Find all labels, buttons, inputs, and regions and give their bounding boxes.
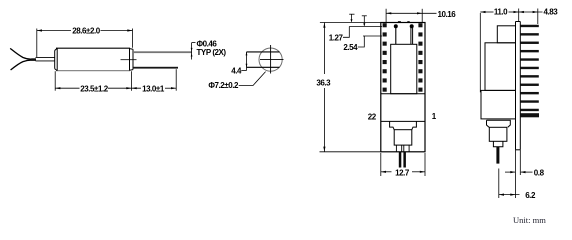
inner lead 2 (double) with top ball [410,27,412,44]
mid block [485,43,516,91]
pins [520,25,539,118]
body top edge [56,47,130,49]
dim 23.5±1.2 and 13.0±1 [55,69,176,91]
arrow stems [351,14,353,21]
wire upper [10,48,31,59]
centerline tick at right cap [121,59,137,61]
divider line (capsule bottom, full width) [381,93,425,95]
svg-text:4.83: 4.83 [544,8,559,17]
connector cap [487,120,511,127]
ext at package top edge level [320,22,382,24]
body left cap [55,48,58,70]
dim 4.4 [246,52,248,71]
circle outline [259,48,282,71]
dim 6.2 [499,194,520,196]
body right cap [130,48,134,70]
svg-text:2.54: 2.54 [343,43,358,52]
leader 2.54 [358,36,365,47]
lead feet [396,145,409,152]
left pad column [383,23,387,92]
slab edge extensions [515,150,517,198]
lead dia callout Φ0.46 TYP (2X) [192,43,196,60]
left extension line [479,13,481,92]
svg-text:10.16: 10.16 [438,10,457,19]
dim 0.8 [505,171,533,173]
lead sleeve pair [36,56,55,58]
connector block 2 [489,127,507,141]
svg-text:36.3: 36.3 [316,78,331,87]
dim 4.83 [519,9,543,25]
dim 10.16 [386,9,436,22]
svg-text:6.2: 6.2 [525,191,536,200]
lead line lower [247,66,280,68]
dim 12.7 [381,153,425,176]
svg-text:22: 22 [368,112,377,121]
dia leader Φ7.2±0.2 [239,72,266,86]
right pad column [418,23,422,92]
svg-text:1.27: 1.27 [329,34,344,43]
inner capsule rect [391,44,417,93]
svg-text:23.5±1.2: 23.5±1.2 [80,84,108,93]
svg-text:Unit: mm: Unit: mm [513,215,546,225]
lead foot [493,141,503,146]
svg-text:Φ7.2±0.2: Φ7.2±0.2 [208,81,239,90]
lead extension line [498,169,500,199]
lead down (thick) [496,147,499,164]
ext row3 [363,35,382,37]
thick bottom pin [520,113,539,117]
package outline [381,23,425,152]
svg-text:4.4: 4.4 [231,66,242,75]
svg-text:0.8: 0.8 [534,169,545,178]
svg-text:12.7: 12.7 [395,168,410,177]
horizontal centerline [260,59,284,61]
lower lead (black) [133,67,178,69]
lead line upper [247,51,280,53]
wire junction [31,58,36,61]
wire lower [11,60,32,70]
dim 28.6±2.0 [37,29,133,58]
svg-text:28.6±2.0: 28.6±2.0 [72,27,100,36]
dim 36.3 [320,23,381,152]
top block [497,26,515,43]
leader 1.27 [343,27,349,38]
dim 1.27 / 2.54 with extension lines [320,14,382,47]
vertical centerline [270,45,272,74]
connector cap [390,121,417,129]
dim 11.0 [480,9,518,22]
lower block [481,90,516,119]
svg-text:11.0: 11.0 [494,8,508,17]
connector block 2 [394,130,412,145]
tick marks on top edge [398,21,401,23]
slab (vertical board) [516,22,521,150]
ext row2 [349,26,382,28]
body bottom edge [56,70,130,72]
svg-text:TYP (2X): TYP (2X) [197,48,227,57]
svg-text:13.0±1: 13.0±1 [142,84,165,93]
inner lead 1 (single) with top ball [395,27,397,44]
divider line 2 (cap top, full width) [381,120,425,122]
upper lead (gray) [133,51,192,53]
bottom leads (thick) [399,152,402,168]
